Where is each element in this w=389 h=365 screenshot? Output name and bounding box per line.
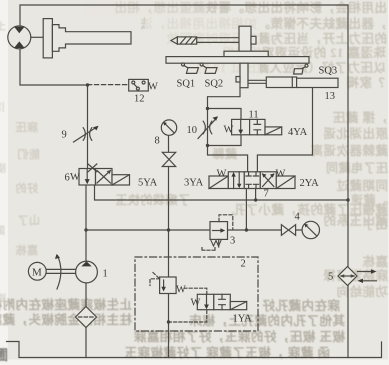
slide plate with nub — [236, 63, 248, 87]
svg-text:同期藏过: 同期藏过 — [336, 178, 388, 193]
cam dog SQ1 — [182, 63, 199, 73]
svg-text:3: 3 — [230, 236, 235, 247]
svg-text:嘉栋: 嘉栋 — [15, 243, 39, 257]
svg-text:其他了孔内的藏孔上，椒床: 其他了孔内的藏孔上，椒床 — [189, 313, 345, 328]
drill bit — [171, 37, 239, 44]
junction pump outlet / manifold — [84, 228, 87, 231]
svg-text:1YA: 1YA — [233, 314, 253, 325]
svg-text:11: 11 — [249, 110, 259, 121]
svg-text:W: W — [148, 82, 158, 93]
svg-text:山了: 山了 — [17, 213, 40, 227]
wire: valve 7 P stub down to pressure line — [255, 189, 257, 201]
junction pressure line / valve 7 P port — [254, 198, 257, 201]
pressure switch 12 — [129, 79, 149, 91]
svg-text:M: M — [32, 267, 42, 279]
svg-text:寐在内藏孔好: 寐在内藏孔好 — [262, 298, 340, 313]
wire: right riser x=348 top to bottom tank line — [347, 5, 349, 358]
svg-text:原出湖北谣: 原出湖北谣 — [323, 126, 388, 141]
svg-text:压了电藏同: 压了电藏同 — [325, 160, 388, 175]
svg-text:7: 7 — [264, 189, 269, 200]
svg-text:国: 国 — [0, 225, 6, 237]
wire: pump outlet up to manifold junction — [85, 230, 87, 261]
cam dog SQ3 at rail end — [294, 64, 308, 74]
spindle head column — [224, 26, 268, 63]
wire: top supply line from hydraulic motor to right riser — [20, 5, 348, 26]
junction bypass loop bottom — [206, 144, 209, 147]
pilot relief valve in box 2 — [150, 273, 176, 294]
wire: main line below valve 6 down to manifold — [85, 185, 87, 230]
wire: unloading branch through box 2 to tank line — [168, 294, 170, 358]
wire: dashed pilot line to pressure switch 12 — [88, 84, 129, 86]
svg-text:SQ3: SQ3 — [319, 66, 338, 77]
svg-text:好的: 好的 — [15, 181, 39, 195]
valve 11 (4YA) 2-position — [232, 119, 282, 134]
junction pressure line / right riser — [346, 198, 349, 201]
svg-text:W: W — [70, 172, 80, 183]
svg-text:寐压: 寐压 — [15, 120, 38, 134]
svg-text:能们: 能们 — [17, 147, 40, 161]
box 2 (dash-dot enclosure) — [135, 257, 258, 331]
hydraulic motor (top left) — [8, 26, 31, 49]
throttle 9 (adjustable) — [74, 126, 99, 142]
svg-text:2YA: 2YA — [300, 178, 320, 189]
svg-text:W: W — [276, 169, 286, 180]
svg-text:上: 上 — [0, 20, 7, 33]
svg-text:藏縣: 藏縣 — [212, 146, 237, 161]
svg-text:1: 1 — [103, 269, 108, 280]
svg-text:山了: 山了 — [362, 217, 388, 232]
pressure gauge (right of valve 4) — [302, 221, 319, 238]
svg-text:12: 12 — [134, 94, 145, 105]
svg-text:W: W — [217, 169, 227, 180]
junction pilot line in box 2 — [167, 320, 170, 323]
spring W glyphs — [70, 82, 286, 309]
svg-text:，摞 藏压: ，摞 藏压 — [332, 110, 388, 125]
svg-text:6: 6 — [65, 173, 70, 184]
pump 1 — [76, 261, 98, 283]
svg-text:止生椒寐藏座椒在内附椒: 止生椒寐藏座椒在内附椒 — [0, 297, 132, 312]
svg-text:柱主相由金腕椒头，藏寐藏: 柱主相由金腕椒头，藏寐藏 — [0, 312, 132, 327]
svg-text:4: 4 — [295, 212, 301, 223]
wire: manifold line y=230 — [86, 229, 302, 231]
svg-text:SQ1: SQ1 — [177, 79, 196, 90]
wire: motor to chuck — [31, 36, 44, 38]
chuck with workpiece bar — [43, 19, 131, 58]
valve 1YA (unloading) — [197, 294, 246, 309]
svg-text:功能给向: 功能给向 — [336, 284, 388, 299]
svg-text:引: 引 — [0, 101, 6, 114]
wire: gauge 8 / unloading branch x=168.5 — [168, 135, 170, 277]
junction at pressure-switch tap — [86, 83, 89, 86]
svg-text:4YA: 4YA — [288, 127, 308, 138]
valve 6 (5YA) 2-position — [79, 169, 130, 186]
svg-text:5YA: 5YA — [138, 178, 158, 189]
junction bypass loop top — [206, 107, 209, 110]
svg-text:？家褐: ？家褐 — [346, 75, 385, 90]
suction filter below pump — [76, 307, 97, 328]
svg-text:圃: 圃 — [0, 348, 9, 364]
filter 5 on right riser — [338, 267, 377, 286]
wire: main riser x=87.5 from junction down to valve 6 — [87, 85, 89, 169]
svg-text:10: 10 — [187, 125, 198, 136]
svg-text:藏棘器次谣离: 藏棘器次谣离 — [310, 143, 388, 158]
wire: bypass loop (throttle 10 / valve 11) — [208, 109, 242, 146]
cam dog SQ2 — [200, 63, 217, 73]
left margin cut glyphs — [0, 348, 9, 364]
pressure gauge 8 — [161, 120, 176, 135]
wire: pump suction down through filter to tank line — [85, 283, 87, 358]
wire: bottom tank line with end upturns — [7, 342, 382, 358]
svg-text:W: W — [191, 298, 201, 309]
slide rail — [166, 57, 309, 64]
junction manifold / unloading branch — [167, 228, 170, 231]
wire: slide feed down-left into bypass loop — [208, 88, 241, 109]
orifice above valve 6 — [88, 164, 97, 172]
shutoff valve below gauge 8 — [162, 152, 175, 166]
svg-text:8: 8 — [155, 136, 160, 147]
svg-text:嘉栋: 嘉栋 — [362, 254, 389, 269]
svg-text:W: W — [224, 125, 234, 136]
junction manifold / valve 7 T port — [245, 228, 248, 231]
svg-text:9: 9 — [62, 130, 67, 141]
wire: motor bottom down and right to main riser junction — [20, 49, 88, 85]
wire: loop bottom down to valve 7 A port — [208, 146, 248, 172]
scan fade (lighter bleed-through, upper centre) — [145, 14, 260, 82]
valve 7 (3YA/2YA) 3-position 4-way — [209, 172, 295, 189]
svg-text:SQ2: SQ2 — [205, 79, 224, 90]
svg-text:剧: 剧 — [0, 292, 7, 305]
svg-text:藏檐压了藏的孩，藏小了孔: 藏檐压了藏的孩，藏小了孔 — [232, 202, 388, 217]
cylinder 13 — [248, 77, 338, 88]
wire: cylinder 13 line down-left to valve 7 B port — [257, 88, 312, 172]
relief/sequence valve 3 — [202, 215, 233, 250]
svg-text:3YA: 3YA — [184, 178, 204, 189]
wire: valve 6 outlet down then right (pressure line y=200) — [95, 185, 349, 200]
svg-text:W: W — [176, 285, 186, 296]
shutoff valve 4 — [281, 225, 295, 236]
wire: valve 7 T stub down to manifold — [245, 189, 247, 231]
throttle 10 (adjustable) — [198, 116, 218, 138]
svg-text:5: 5 — [328, 272, 333, 283]
dashed pilot lines of unloading valve 1YA — [184, 288, 207, 294]
svg-text:2: 2 — [241, 259, 246, 270]
svg-text:副: 副 — [0, 162, 7, 175]
electric motor M — [28, 254, 77, 289]
svg-text:13: 13 — [325, 91, 336, 102]
